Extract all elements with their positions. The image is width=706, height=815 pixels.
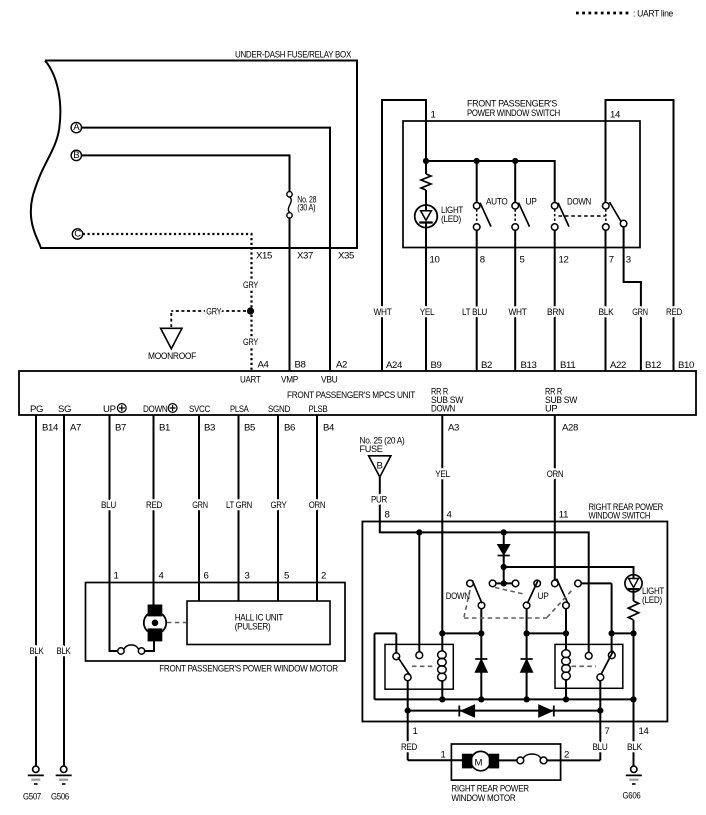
svg-text:ORN: ORN <box>547 469 564 480</box>
svg-text:B13: B13 <box>521 360 537 371</box>
svg-text:UNDER-DASH FUSE/RELAY BOX: UNDER-DASH FUSE/RELAY BOX <box>235 50 352 61</box>
svg-text:B1: B1 <box>159 423 170 434</box>
svg-text:GRY: GRY <box>243 280 259 291</box>
svg-text:1: 1 <box>441 750 446 761</box>
svg-text:MOONROOF: MOONROOF <box>148 351 196 362</box>
svg-text:GRN: GRN <box>632 307 648 318</box>
svg-text:UP: UP <box>103 404 116 415</box>
svg-text:10: 10 <box>430 255 440 266</box>
svg-text:BLK: BLK <box>30 646 45 657</box>
svg-text:B12: B12 <box>645 360 661 371</box>
svg-text:YEL: YEL <box>435 469 450 480</box>
svg-text:UP: UP <box>538 591 549 602</box>
svg-text:UART: UART <box>240 375 261 386</box>
svg-text:X35: X35 <box>338 251 354 262</box>
svg-text:A24: A24 <box>386 360 403 371</box>
svg-text:B8: B8 <box>295 360 306 371</box>
svg-text:B14: B14 <box>42 423 59 434</box>
svg-text:1: 1 <box>114 571 119 582</box>
svg-text:B9: B9 <box>431 360 442 371</box>
svg-text:B6: B6 <box>284 423 295 434</box>
svg-text:GRY: GRY <box>271 500 288 511</box>
svg-text:A3: A3 <box>448 423 459 434</box>
svg-text:A4: A4 <box>258 360 270 371</box>
svg-text:A28: A28 <box>562 423 578 434</box>
svg-text:RED: RED <box>666 307 682 318</box>
svg-text:C: C <box>74 229 81 240</box>
svg-text:14: 14 <box>610 110 621 121</box>
svg-text:WHT: WHT <box>509 307 527 318</box>
svg-text:B: B <box>73 150 79 161</box>
svg-text:BLK: BLK <box>57 646 72 657</box>
svg-text:7: 7 <box>605 726 610 737</box>
svg-text:5: 5 <box>284 571 289 582</box>
svg-text:YEL: YEL <box>420 307 435 318</box>
svg-text:2: 2 <box>564 750 569 761</box>
svg-text:7: 7 <box>609 255 614 266</box>
svg-text:VBU: VBU <box>321 375 338 386</box>
svg-text:B11: B11 <box>560 360 575 371</box>
svg-text:BLK: BLK <box>599 307 615 318</box>
svg-text:X37: X37 <box>297 251 313 262</box>
svg-text:LT BLU: LT BLU <box>462 307 487 318</box>
svg-text:B5: B5 <box>244 423 255 434</box>
svg-text:8: 8 <box>385 510 390 521</box>
svg-text:WHT: WHT <box>374 307 392 318</box>
svg-text:B3: B3 <box>204 423 215 434</box>
svg-text:A: A <box>73 122 80 133</box>
svg-text:11: 11 <box>559 510 568 521</box>
svg-text:B2: B2 <box>481 360 492 371</box>
svg-text:A22: A22 <box>610 360 626 371</box>
svg-text:(LED): (LED) <box>441 214 461 225</box>
svg-text:(30 A): (30 A) <box>297 202 315 213</box>
svg-text:A7: A7 <box>70 423 81 434</box>
svg-text:GRN: GRN <box>192 500 208 511</box>
svg-text:DOWN: DOWN <box>446 591 470 602</box>
svg-text:BLK: BLK <box>627 742 643 753</box>
svg-text:RED: RED <box>146 500 162 511</box>
svg-text:LT GRN: LT GRN <box>226 500 252 511</box>
svg-text:WINDOW SWITCH: WINDOW SWITCH <box>589 511 651 522</box>
svg-text:2: 2 <box>321 571 326 582</box>
svg-text:AUTO: AUTO <box>486 197 508 208</box>
svg-text:DOWN: DOWN <box>143 404 168 415</box>
svg-text:: UART line: : UART line <box>633 9 673 20</box>
svg-text:B: B <box>377 461 383 472</box>
svg-text:8: 8 <box>480 255 485 266</box>
svg-text:PG: PG <box>30 404 43 415</box>
svg-text:(PULSER): (PULSER) <box>235 622 271 633</box>
svg-text:RED: RED <box>401 742 417 753</box>
svg-text:G506: G506 <box>51 792 69 803</box>
svg-text:5: 5 <box>520 255 525 266</box>
svg-text:BLU: BLU <box>101 500 116 511</box>
svg-text:ORN: ORN <box>309 500 326 511</box>
svg-text:VMP: VMP <box>281 375 298 386</box>
svg-text:PLSA: PLSA <box>230 404 249 415</box>
svg-text:DOWN: DOWN <box>431 404 455 414</box>
svg-text:WINDOW MOTOR: WINDOW MOTOR <box>451 793 515 804</box>
svg-text:SVCC: SVCC <box>189 404 210 415</box>
svg-text:GRY: GRY <box>206 306 222 317</box>
svg-text:1: 1 <box>413 726 418 737</box>
svg-text:1: 1 <box>431 110 436 121</box>
svg-text:3: 3 <box>626 255 631 266</box>
svg-text:3: 3 <box>245 571 250 582</box>
svg-text:FRONT PASSENGER'S POWER WINDOW: FRONT PASSENGER'S POWER WINDOW MOTOR <box>159 664 338 675</box>
svg-text:M: M <box>475 758 483 769</box>
svg-text:UP: UP <box>545 404 557 414</box>
svg-text:BRN: BRN <box>547 307 564 318</box>
svg-text:FRONT PASSENGER'S MPCS UNIT: FRONT PASSENGER'S MPCS UNIT <box>287 390 415 401</box>
svg-text:UP: UP <box>526 197 537 208</box>
svg-text:6: 6 <box>204 571 209 582</box>
svg-text:PLSB: PLSB <box>309 404 328 415</box>
svg-text:B10: B10 <box>678 360 694 371</box>
svg-text:B7: B7 <box>115 423 126 434</box>
svg-text:A2: A2 <box>336 360 347 371</box>
svg-text:X15: X15 <box>256 251 272 262</box>
svg-text:DOWN: DOWN <box>567 197 591 208</box>
svg-text:BLU: BLU <box>593 742 608 753</box>
svg-text:B4: B4 <box>323 423 335 434</box>
svg-text:FUSE: FUSE <box>360 444 383 455</box>
svg-text:PUR: PUR <box>371 495 387 506</box>
svg-text:G606: G606 <box>623 791 641 802</box>
svg-text:(LED): (LED) <box>642 595 662 606</box>
svg-text:POWER WINDOW SWITCH: POWER WINDOW SWITCH <box>467 108 560 119</box>
svg-text:12: 12 <box>559 255 569 266</box>
svg-text:SGND: SGND <box>268 404 290 415</box>
svg-text:G507: G507 <box>23 792 41 803</box>
svg-text:GRY: GRY <box>243 337 259 348</box>
svg-text:SG: SG <box>58 404 71 415</box>
svg-text:14: 14 <box>639 726 650 737</box>
